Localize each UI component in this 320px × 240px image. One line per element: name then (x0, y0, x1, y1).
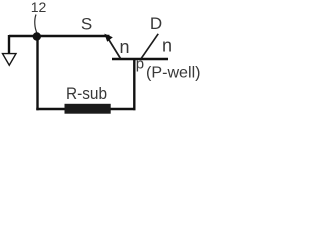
node junction dot (33, 32, 41, 40)
source n-diffusion arrow (108, 38, 121, 59)
resistor R-sub body (65, 104, 111, 114)
leader line from label 12 to node (35, 15, 37, 34)
svg-text:(P-well): (P-well) (146, 65, 200, 82)
wire bottom right from resistor (111, 108, 136, 110)
wire top horizontal S rail (9, 35, 110, 37)
svg-text:D: D (150, 14, 162, 33)
svg-text:p: p (136, 56, 144, 73)
wire right vertical up to p-well (133, 59, 135, 110)
drain n-diffusion line (141, 34, 158, 59)
p-well surface line (112, 58, 168, 60)
wire ground drop (8, 35, 10, 54)
svg-text:n: n (162, 36, 172, 56)
svg-text:R-sub: R-sub (66, 84, 107, 103)
wire bottom left to resistor (36, 108, 65, 110)
wire left vertical from node down (36, 36, 38, 110)
svg-text:S: S (81, 15, 92, 34)
source arrowhead (104, 34, 113, 42)
svg-text:n: n (120, 37, 130, 57)
ground (3, 54, 17, 66)
svg-text:12: 12 (31, 0, 47, 15)
